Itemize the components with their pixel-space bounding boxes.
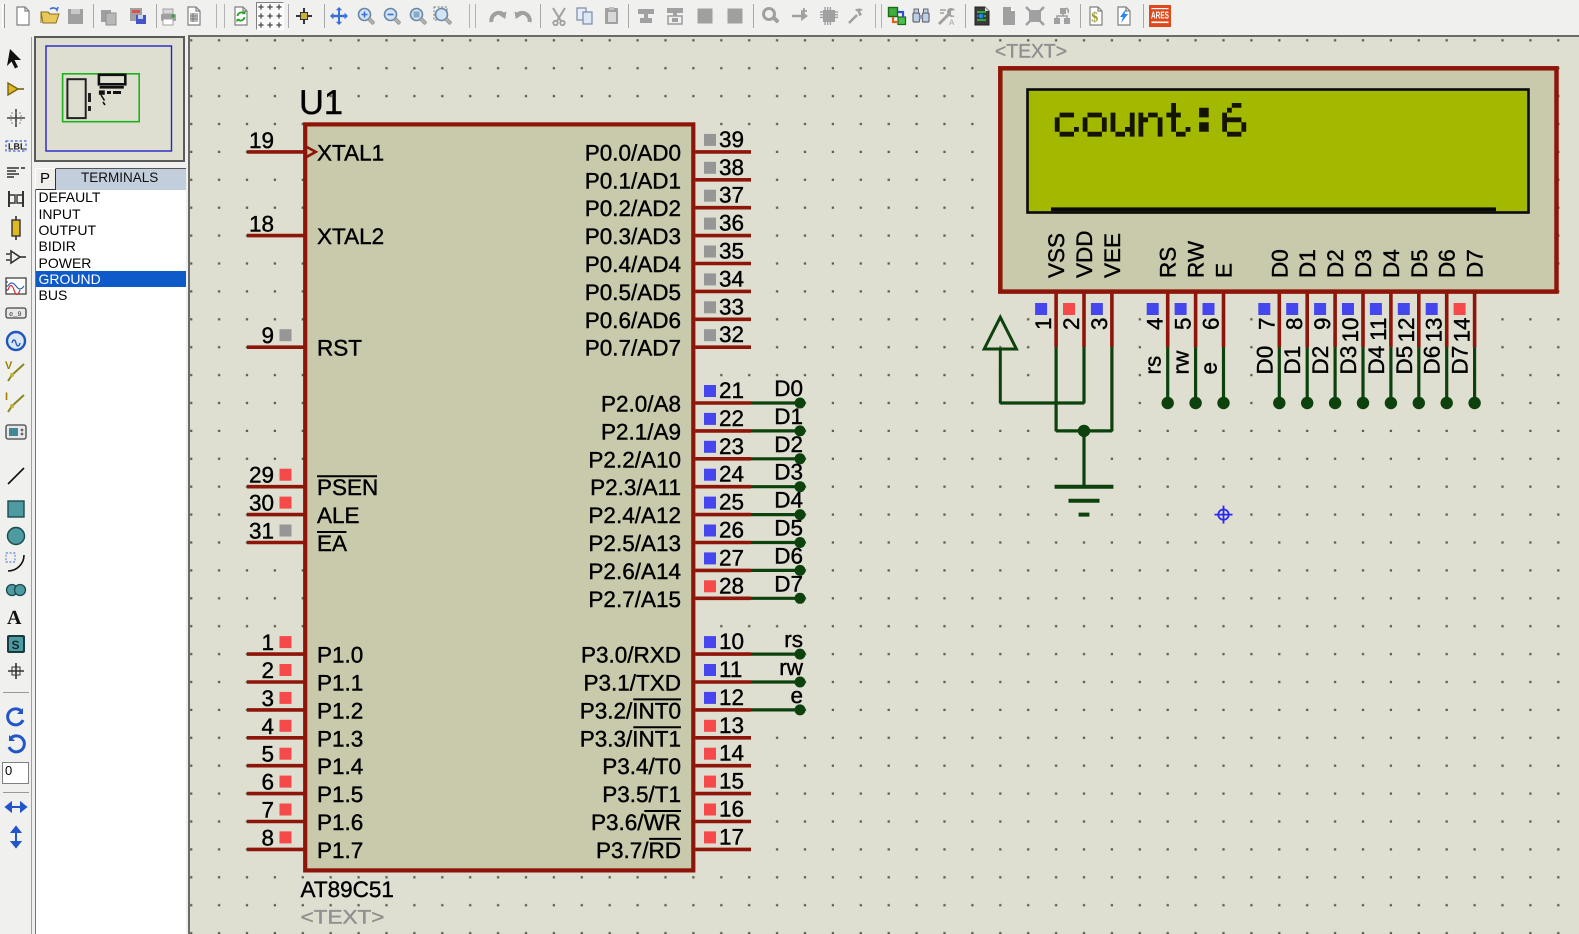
svg-text:D0: D0 xyxy=(1267,249,1292,278)
svg-text:P0.0/AD0: P0.0/AD0 xyxy=(585,140,681,165)
svg-text:P3.6/WR: P3.6/WR xyxy=(591,810,681,835)
svg-text:12: 12 xyxy=(719,685,744,710)
svg-text:e: e xyxy=(1197,362,1222,375)
svg-text:D5: D5 xyxy=(1392,346,1417,375)
svg-text:P0.7/AD7: P0.7/AD7 xyxy=(585,336,681,361)
svg-text:P1.7: P1.7 xyxy=(317,838,363,863)
svg-text:31: 31 xyxy=(249,519,274,544)
svg-text:38: 38 xyxy=(719,155,744,180)
svg-text:D1: D1 xyxy=(774,404,803,429)
svg-text:D1: D1 xyxy=(1295,249,1320,278)
svg-text:XTAL1: XTAL1 xyxy=(317,140,384,165)
svg-text:P0.2/AD2: P0.2/AD2 xyxy=(585,196,681,221)
svg-text:P1.3: P1.3 xyxy=(317,726,363,751)
svg-text:VDD: VDD xyxy=(1072,230,1097,278)
svg-text:<TEXT>: <TEXT> xyxy=(301,907,385,929)
svg-text:P3.0/RXD: P3.0/RXD xyxy=(581,643,681,668)
svg-text:D6: D6 xyxy=(774,543,803,568)
svg-text:9: 9 xyxy=(1310,318,1335,331)
svg-text:P2.5/A13: P2.5/A13 xyxy=(588,531,681,556)
svg-text:11: 11 xyxy=(1366,318,1391,341)
svg-text:10: 10 xyxy=(1338,318,1363,343)
svg-text:P2.4/A12: P2.4/A12 xyxy=(588,503,681,528)
svg-text:3: 3 xyxy=(1087,318,1112,331)
svg-text:P0.6/AD6: P0.6/AD6 xyxy=(585,308,681,333)
svg-text:P0.4/AD4: P0.4/AD4 xyxy=(585,252,681,277)
svg-text:e_9: e_9 xyxy=(9,311,22,319)
svg-text:4: 4 xyxy=(261,714,274,739)
svg-text:P1.0: P1.0 xyxy=(317,643,363,668)
svg-text:17: 17 xyxy=(719,824,744,849)
svg-text:RST: RST xyxy=(317,336,362,361)
svg-text:P3.4/T0: P3.4/T0 xyxy=(602,754,681,779)
svg-text:e: e xyxy=(790,683,803,708)
svg-text:6: 6 xyxy=(1199,318,1224,331)
svg-text:11: 11 xyxy=(719,657,742,682)
svg-text:D2: D2 xyxy=(774,432,803,457)
svg-text:15: 15 xyxy=(719,769,744,794)
svg-text:D7: D7 xyxy=(1448,346,1473,375)
svg-text:2: 2 xyxy=(1059,318,1084,331)
svg-text:23: 23 xyxy=(719,434,744,459)
svg-text:P2.2/A10: P2.2/A10 xyxy=(588,447,681,472)
svg-text:P1.5: P1.5 xyxy=(317,782,363,807)
svg-text:rw: rw xyxy=(779,655,803,680)
svg-text:8: 8 xyxy=(1282,318,1307,331)
svg-text:P3.1/TXD: P3.1/TXD xyxy=(583,671,681,696)
svg-text:D2: D2 xyxy=(1323,249,1348,278)
svg-text:36: 36 xyxy=(719,211,744,236)
svg-text:37: 37 xyxy=(719,183,744,208)
svg-text:rs: rs xyxy=(1141,356,1166,375)
svg-text:D4: D4 xyxy=(774,488,803,513)
svg-text:25: 25 xyxy=(719,490,744,515)
svg-text:10: 10 xyxy=(719,629,744,654)
svg-text:7: 7 xyxy=(261,798,274,823)
svg-text:33: 33 xyxy=(719,294,744,319)
svg-text:P1.2: P1.2 xyxy=(317,698,363,723)
svg-text:22: 22 xyxy=(719,406,744,431)
svg-text:D5: D5 xyxy=(774,516,803,541)
svg-text:4: 4 xyxy=(1143,318,1168,331)
svg-text:RW: RW xyxy=(1184,240,1209,278)
svg-text:D0: D0 xyxy=(774,376,803,401)
svg-text:D0: D0 xyxy=(1252,346,1277,375)
svg-text:A: A xyxy=(949,18,955,26)
svg-text:ARES: ARES xyxy=(1151,11,1169,22)
svg-text:6: 6 xyxy=(261,770,274,795)
svg-text:7: 7 xyxy=(1254,318,1279,331)
svg-text:D7: D7 xyxy=(1463,249,1488,278)
svg-text:26: 26 xyxy=(719,518,744,543)
svg-text:24: 24 xyxy=(719,462,744,487)
svg-text:P0.5/AD5: P0.5/AD5 xyxy=(585,280,681,305)
svg-text:P2.6/A14: P2.6/A14 xyxy=(588,559,681,584)
svg-text:D5: D5 xyxy=(1407,249,1432,278)
svg-text:27: 27 xyxy=(719,545,744,570)
svg-text:P2.0/A8: P2.0/A8 xyxy=(601,392,681,417)
svg-text:12: 12 xyxy=(1394,318,1419,343)
svg-text:PSEN: PSEN xyxy=(317,475,378,500)
svg-text:P0.3/AD3: P0.3/AD3 xyxy=(585,224,681,249)
svg-text:EA: EA xyxy=(317,531,347,556)
svg-text:29: 29 xyxy=(249,463,274,488)
svg-text:S: S xyxy=(12,638,20,652)
svg-text:13: 13 xyxy=(1422,318,1447,343)
svg-text:D7: D7 xyxy=(774,571,803,596)
svg-text:P2.7/A15: P2.7/A15 xyxy=(588,587,681,612)
svg-text:P3.5/T1: P3.5/T1 xyxy=(602,782,681,807)
svg-text:19: 19 xyxy=(249,128,274,153)
svg-text:P1.1: P1.1 xyxy=(317,671,363,696)
svg-text:D3: D3 xyxy=(774,460,803,485)
svg-text:E: E xyxy=(1212,263,1237,278)
svg-text:P3.2/INT0: P3.2/INT0 xyxy=(580,698,681,723)
svg-text:P0.1/AD1: P0.1/AD1 xyxy=(585,168,681,193)
svg-text:ALE: ALE xyxy=(317,503,360,528)
svg-text:LBL: LBL xyxy=(8,142,26,152)
svg-text:rs: rs xyxy=(784,627,803,652)
svg-text:16: 16 xyxy=(719,797,744,822)
svg-text:VSS: VSS xyxy=(1044,233,1069,278)
svg-text:D4: D4 xyxy=(1379,249,1404,278)
svg-text:V: V xyxy=(5,360,13,372)
svg-text:5: 5 xyxy=(1171,318,1196,331)
svg-text:P3.7/RD: P3.7/RD xyxy=(596,838,681,863)
svg-text:VEE: VEE xyxy=(1100,233,1125,278)
svg-text:35: 35 xyxy=(719,239,744,264)
svg-text:18: 18 xyxy=(249,212,274,237)
svg-text:14: 14 xyxy=(719,741,744,766)
svg-text:1: 1 xyxy=(1031,318,1056,331)
svg-text:D3: D3 xyxy=(1351,249,1376,278)
svg-text:34: 34 xyxy=(719,266,744,291)
svg-text:21: 21 xyxy=(719,378,744,403)
svg-text:9: 9 xyxy=(261,323,274,348)
svg-text:30: 30 xyxy=(249,491,274,516)
svg-text:5: 5 xyxy=(261,742,274,767)
svg-text:XTAL2: XTAL2 xyxy=(317,224,384,249)
svg-text:D6: D6 xyxy=(1435,249,1460,278)
svg-text:14: 14 xyxy=(1450,318,1475,343)
svg-text:U1: U1 xyxy=(299,84,343,122)
svg-text:28: 28 xyxy=(719,573,744,598)
svg-text:D4: D4 xyxy=(1364,346,1389,375)
svg-text:8: 8 xyxy=(261,825,274,850)
svg-text:RS: RS xyxy=(1156,247,1181,278)
svg-text:D2: D2 xyxy=(1308,346,1333,375)
svg-text:P3.3/INT1: P3.3/INT1 xyxy=(580,726,681,751)
svg-text:32: 32 xyxy=(719,322,744,347)
svg-text:D3: D3 xyxy=(1336,346,1361,375)
svg-text:P1.6: P1.6 xyxy=(317,810,363,835)
svg-text:P1.4: P1.4 xyxy=(317,754,363,779)
svg-text:1: 1 xyxy=(261,630,274,655)
svg-text:<TEXT>: <TEXT> xyxy=(995,41,1067,63)
svg-text:AT89C51: AT89C51 xyxy=(301,877,394,902)
svg-text:I: I xyxy=(5,391,8,403)
svg-text:D1: D1 xyxy=(1280,346,1305,375)
svg-text:13: 13 xyxy=(719,713,744,738)
svg-text:D6: D6 xyxy=(1420,346,1445,375)
svg-text:P2.3/A11: P2.3/A11 xyxy=(590,475,681,500)
svg-text:A: A xyxy=(7,607,22,629)
svg-text:3: 3 xyxy=(261,686,274,711)
svg-text:2: 2 xyxy=(261,658,274,683)
svg-text:P2.1/A9: P2.1/A9 xyxy=(601,419,681,444)
svg-text:$: $ xyxy=(1091,11,1098,26)
svg-text:39: 39 xyxy=(719,127,744,152)
svg-text:rw: rw xyxy=(1169,350,1194,374)
